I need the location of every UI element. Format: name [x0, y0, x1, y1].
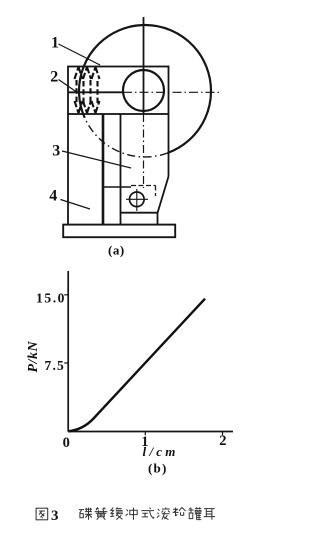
svg-text:/cm: /cm	[149, 444, 179, 459]
figure caption: hanzi lun (轮)	[173, 507, 186, 516]
pocket hidden dashed edges	[131, 186, 156, 197]
horizontal axis dash-dot	[123, 91, 220, 93]
svg-text:2: 2	[50, 69, 58, 86]
horizontal axis solid segment	[68, 91, 123, 93]
axis title l/cm	[143, 444, 179, 459]
label 4	[49, 188, 57, 205]
figure caption: hanzi die (碟)	[79, 508, 92, 520]
label 2	[50, 69, 58, 86]
leader line 1	[59, 44, 101, 65]
chart x-axis	[68, 431, 233, 433]
x label 0	[63, 435, 70, 451]
figure caption: hanzi chong (冲)	[126, 508, 138, 520]
svg-text:0: 0	[63, 435, 70, 451]
load-deflection curve	[68, 299, 205, 432]
svg-text:(b): (b)	[148, 461, 168, 476]
label 1	[51, 35, 59, 52]
bracket right edge	[168, 114, 170, 177]
leader line 2	[59, 80, 79, 94]
svg-text:l: l	[143, 444, 150, 459]
figure caption: hanzi guan (罐)	[188, 507, 201, 519]
vertical centerline solid upper	[143, 17, 145, 114]
x label 1	[141, 434, 148, 450]
roller wheel big circle solid arc	[79, 25, 211, 153]
svg-text:4: 4	[49, 188, 57, 205]
leader line 3	[62, 151, 131, 168]
caption (b)	[148, 461, 168, 476]
disc spring stack dashed	[75, 67, 100, 113]
disc spring middle dashes	[77, 80, 98, 106]
column left line	[102, 114, 105, 225]
caption (a)	[108, 243, 125, 258]
bolt circle	[130, 192, 145, 207]
leader line 4	[61, 200, 91, 210]
bracket lower vertical	[157, 213, 159, 225]
figure caption: hanzi gun (滚)	[157, 507, 170, 519]
x tick 1	[144, 432, 146, 436]
base plate	[63, 225, 175, 238]
figure caption: hanzi tu (图)	[36, 508, 48, 520]
figure caption: hanzi huan (缓)	[110, 508, 123, 520]
svg-text:2: 2	[219, 433, 226, 449]
svg-text:(a): (a)	[108, 243, 125, 258]
y label 7.5	[45, 358, 65, 373]
pocket bottom edge	[121, 212, 158, 214]
bracket slanted edge	[158, 177, 169, 214]
y tick 7.5	[64, 362, 68, 364]
x tick 2	[222, 432, 224, 436]
figure caption: hanzi shi (式)	[141, 508, 154, 519]
svg-text:7.5: 7.5	[45, 358, 65, 373]
column right line	[120, 114, 122, 225]
left plate vertical	[67, 114, 69, 225]
roller wheel big circle dash-dot arc	[85, 118, 168, 157]
figure caption: hanzi huang (簧)	[95, 507, 108, 519]
y label 15.0	[36, 291, 66, 306]
housing rectangle	[68, 67, 169, 115]
svg-text:1: 1	[51, 35, 59, 52]
svg-text:P/kN: P/kN	[26, 341, 41, 373]
x label 2	[219, 433, 226, 449]
svg-text:3: 3	[51, 508, 59, 524]
shaft small circle	[123, 70, 164, 111]
pocket top edge solid	[103, 186, 131, 188]
label 3	[52, 143, 60, 160]
svg-text:3: 3	[52, 143, 60, 160]
vertical centerline dash-dot lower	[143, 114, 145, 188]
figure caption: 3	[51, 508, 59, 524]
axis title P/kN rotated	[26, 341, 41, 373]
svg-text:15.0: 15.0	[36, 291, 66, 306]
y tick 15.0	[64, 294, 68, 296]
figure caption: hanzi er (耳)	[204, 509, 215, 520]
chart y-axis	[67, 271, 69, 432]
bolt crosshair	[126, 189, 148, 211]
